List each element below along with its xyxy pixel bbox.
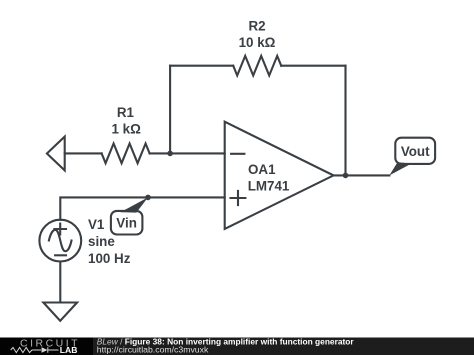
svg-text:R1: R1 xyxy=(117,105,135,120)
wire: ground to R1 xyxy=(65,152,102,154)
V1 minus mark xyxy=(55,254,66,256)
ground (left of R1) xyxy=(47,137,65,171)
Vin flag pointer xyxy=(121,197,149,212)
wire: V1 to op-amp non-inverting input xyxy=(60,197,224,219)
svg-text:OA1: OA1 xyxy=(248,162,276,177)
wire: feedback right vertical xyxy=(344,66,346,176)
svg-text:100 Hz: 100 Hz xyxy=(88,251,131,266)
wire: R1 to op-amp inverting input xyxy=(150,152,225,154)
op-amp OA1 xyxy=(225,122,334,229)
wire: feedback left vertical xyxy=(169,66,171,154)
op-amp plus input mark xyxy=(231,191,246,205)
svg-text:Vin: Vin xyxy=(116,216,137,231)
svg-text:LAB: LAB xyxy=(60,345,78,355)
svg-text:LM741: LM741 xyxy=(248,179,290,194)
V1 plus mark xyxy=(54,224,66,235)
resistor R2 xyxy=(233,56,281,76)
wire: feedback top left segment xyxy=(170,65,233,67)
resistor R1 xyxy=(102,144,150,164)
junction node at R1 / feedback xyxy=(167,151,173,157)
svg-text:R2: R2 xyxy=(248,19,265,34)
wire: op-amp output xyxy=(334,174,390,176)
V1 sine mark xyxy=(49,230,72,251)
node flag Vout box xyxy=(395,138,435,164)
svg-text:V1: V1 xyxy=(88,217,105,232)
op-amp minus input mark xyxy=(231,153,244,155)
Vout flag pointer xyxy=(389,162,411,175)
svg-text:1 kΩ: 1 kΩ xyxy=(112,122,142,137)
node flag Vin box xyxy=(111,211,142,235)
footer logo box xyxy=(0,338,93,355)
svg-text:10 kΩ: 10 kΩ xyxy=(239,35,276,50)
junction node at Vin xyxy=(145,195,151,201)
logo resistor-diode icon xyxy=(11,347,59,353)
voltage source V1 xyxy=(39,220,81,262)
svg-text:sine: sine xyxy=(88,234,115,249)
wire: V1 to ground xyxy=(59,262,61,303)
ground (below V1) xyxy=(43,303,77,321)
footer bar xyxy=(0,338,474,355)
junction node at op-amp output xyxy=(343,173,349,179)
wire: feedback top right segment xyxy=(281,65,345,67)
svg-text:Vout: Vout xyxy=(401,144,430,159)
svg-text:http://circuitlab.com/c3mvuxk: http://circuitlab.com/c3mvuxk xyxy=(97,345,209,355)
